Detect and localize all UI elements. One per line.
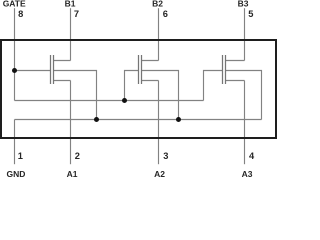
wire Q1 drain stub (54, 60, 71, 62)
wire Q2 drain stub (142, 60, 159, 62)
junction dot Q2 gate tap on gate bus (122, 98, 127, 103)
svg-text:4: 4 (249, 151, 255, 161)
wire Q2 body stub (142, 71, 179, 120)
junction dot Q2 body on body bus (176, 117, 181, 122)
svg-text:7: 7 (74, 9, 79, 19)
svg-text:B1: B1 (65, 0, 76, 9)
wire Q1 source stub (54, 80, 71, 82)
svg-text:GATE: GATE (3, 0, 26, 9)
wire pin 7 B1 lead (70, 8, 72, 60)
svg-text:B2: B2 (152, 0, 163, 9)
wire Q1 gate line (15, 70, 51, 72)
wire gate bus horizontal (15, 100, 204, 102)
svg-text:A1: A1 (67, 169, 78, 179)
wire Q3 gate line and tap (204, 71, 223, 101)
wire Q1 body stub (54, 71, 97, 120)
wire pin 4 A3 lead (244, 81, 246, 165)
wire Q2 source stub (142, 80, 159, 82)
wire pin 3 A2 lead (158, 81, 160, 165)
transistor Q3 channel bar (225, 55, 227, 84)
wire pin 5 B3 lead (244, 8, 246, 60)
svg-text:1: 1 (18, 151, 23, 161)
wire Q2 gate line and tap (125, 71, 139, 101)
wire Q3 body stub (226, 71, 262, 120)
wire pin 1 GND lead (14, 120, 16, 165)
transistor Q1 gate bar (50, 55, 52, 84)
svg-text:3: 3 (163, 151, 168, 161)
svg-text:A2: A2 (154, 169, 165, 179)
transistor Q2 gate bar (138, 55, 140, 84)
svg-text:2: 2 (75, 151, 80, 161)
transistor Q2 channel bar (141, 55, 143, 84)
svg-text:GND: GND (7, 169, 26, 179)
svg-text:A3: A3 (242, 169, 253, 179)
junction dot GATE node (12, 68, 17, 73)
svg-text:5: 5 (248, 9, 253, 19)
wire pin 2 A1 lead (70, 81, 72, 165)
IC outline (1, 40, 276, 138)
svg-text:B3: B3 (238, 0, 249, 9)
transistor Q3 gate bar (222, 55, 224, 84)
wire Q3 source stub (226, 80, 245, 82)
svg-text:6: 6 (163, 9, 168, 19)
junction dot Q1 body on body bus (94, 117, 99, 122)
wire pin 8 GATE lead down to gate bus corner (14, 8, 16, 100)
wire Q3 drain stub (226, 60, 245, 62)
svg-text:8: 8 (18, 9, 23, 19)
wire body bus horizontal (15, 119, 262, 121)
wire pin 6 B2 lead (158, 8, 160, 60)
transistor Q1 channel bar (53, 55, 55, 84)
